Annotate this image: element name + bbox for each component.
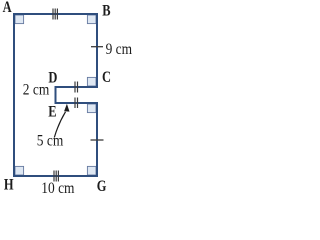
svg-text:9 cm: 9 cm	[106, 41, 133, 58]
tick mark FG (single)	[91, 139, 104, 141]
tick marks HG (triple)	[54, 171, 58, 182]
arrow from 5 cm label to segment EF	[54, 112, 65, 138]
tick marks EF (double)	[75, 98, 78, 109]
tick marks AB (triple)	[53, 9, 57, 20]
svg-text:C: C	[102, 68, 111, 86]
right-angle marker B	[87, 15, 96, 24]
right-angle marker H	[15, 166, 24, 175]
svg-text:E: E	[48, 103, 56, 121]
tick mark BC (single)	[91, 46, 103, 48]
right-angle marker G	[87, 166, 96, 175]
right-angle marker A	[15, 15, 24, 24]
polygon outline A-B-C-D-E-F-G-H	[14, 14, 97, 176]
svg-text:2 cm: 2 cm	[23, 81, 50, 98]
svg-text:G: G	[97, 178, 107, 196]
right-angle marker F	[87, 104, 96, 113]
tick marks DC (double)	[75, 82, 78, 93]
svg-text:10 cm: 10 cm	[41, 180, 75, 197]
svg-text:D: D	[48, 69, 57, 87]
right-angle marker C	[87, 77, 96, 86]
svg-text:B: B	[102, 2, 111, 20]
svg-text:5 cm: 5 cm	[37, 132, 64, 149]
svg-text:H: H	[4, 176, 14, 194]
svg-text:A: A	[3, 0, 13, 17]
